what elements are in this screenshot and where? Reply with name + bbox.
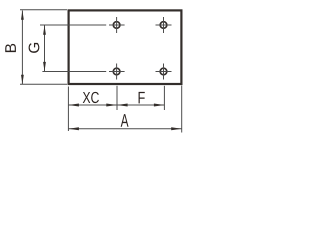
extension line below plate right corner	[181, 86, 183, 133]
label B	[5, 44, 16, 52]
label XC	[83, 92, 99, 103]
extension line below hole column 2	[163, 86, 165, 110]
centerline top row	[40, 24, 106, 26]
dimension B arrow down	[21, 75, 24, 85]
label A	[121, 114, 129, 127]
dimension A line	[68, 128, 181, 130]
extension line B bottom	[20, 83, 67, 85]
label G	[29, 43, 40, 53]
hole H2 top-right	[156, 17, 172, 33]
dimension B arrow up	[21, 10, 24, 19]
dimension G arrow up	[43, 25, 46, 35]
dimension B line	[21, 11, 23, 85]
dimension G line	[44, 25, 46, 71]
dimension G arrow down	[43, 62, 46, 72]
dimension F line	[117, 104, 164, 106]
extension line below plate left corner	[67, 87, 69, 132]
dimension A arrow right	[171, 127, 182, 130]
dimension XC arrow left	[68, 104, 79, 107]
extension line B top	[20, 9, 67, 11]
hole H3 bottom-left	[109, 64, 125, 80]
dimension F arrow left	[117, 104, 128, 107]
hole H4 bottom-right	[156, 64, 172, 80]
dimension XC arrow right	[106, 104, 117, 107]
extension line below hole column 1	[116, 86, 118, 110]
dimension A arrow left	[68, 127, 79, 130]
dimension F arrow right	[154, 104, 165, 107]
hole H1 top-left	[109, 17, 125, 33]
dimension XC line	[68, 104, 116, 106]
label F	[139, 92, 145, 103]
plate outline	[69, 10, 182, 84]
centerline bottom row	[42, 71, 106, 73]
